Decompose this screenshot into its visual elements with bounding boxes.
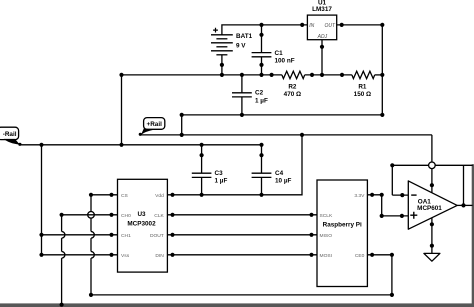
node CE0 corner — [390, 253, 394, 257]
svg-text:MISO: MISO — [320, 233, 333, 239]
node V- pin join — [430, 222, 434, 226]
wire CS — [91, 195, 392, 295]
wire -rail y145 — [21, 144, 262, 146]
wire hop CS over CH1 — [91, 232, 94, 239]
wire DOUT to MISO — [173, 234, 312, 236]
node corner battery minus — [119, 73, 123, 77]
capacitor C3 — [192, 145, 228, 195]
wire feedback — [392, 165, 473, 195]
svg-text:C4: C4 — [275, 170, 284, 177]
wire hop CS over CH0 — [91, 212, 94, 219]
wire V- to ground — [431, 218, 433, 254]
wire CLK to SCLK — [173, 214, 312, 216]
svg-text:ADJ: ADJ — [317, 34, 328, 40]
wire hop CH0 over CH1 — [62, 232, 65, 239]
svg-text:Vdd: Vdd — [155, 193, 164, 199]
capacitor C2 — [232, 73, 268, 115]
node +input join — [400, 214, 404, 218]
node CH1 junction — [39, 233, 43, 237]
svg-text:U3: U3 — [137, 211, 146, 218]
resistor R1 150 ohm — [352, 71, 375, 98]
node CS pin join — [109, 193, 113, 197]
svg-text:470 Ω: 470 Ω — [284, 91, 301, 98]
svg-text:1 µF: 1 µF — [215, 178, 228, 185]
node -rail A — [39, 143, 43, 147]
node C2 bottom junction — [240, 113, 244, 117]
wire battery minus drop — [121, 75, 123, 145]
node C4 top junction — [259, 143, 263, 147]
node V+ pin join — [430, 183, 434, 187]
node CH0 bottom junction — [60, 303, 64, 307]
wire hop feedback over V+ — [429, 162, 436, 169]
svg-text:150 Ω: 150 Ω — [354, 91, 371, 98]
wire LM317 ADJ — [321, 40, 323, 75]
frame border right — [472, 164, 474, 307]
node CE0 pin join — [370, 253, 374, 257]
svg-text:C2: C2 — [255, 90, 264, 97]
svg-text:CE0: CE0 — [355, 253, 365, 259]
wire +rail link vertical — [181, 115, 183, 135]
wire CH0 drop — [61, 215, 63, 305]
svg-text:100 nF: 100 nF — [275, 58, 295, 65]
svg-text:3.3V: 3.3V — [354, 193, 365, 199]
svg-text:MOSI: MOSI — [320, 253, 333, 259]
node Vdd pin join — [170, 193, 174, 197]
svg-text:LM317: LM317 — [312, 6, 332, 13]
node +rail junction — [180, 133, 184, 137]
node feedback corner — [390, 163, 394, 167]
wire DIN to MOSI — [173, 254, 312, 256]
svg-text:SCLK: SCLK — [320, 213, 334, 219]
svg-text:CS: CS — [121, 193, 129, 199]
svg-text:BAT1: BAT1 — [236, 33, 253, 40]
wire 3.3V to +input — [372, 195, 408, 216]
wire hop CS over Vss — [91, 252, 94, 259]
node C1 bottom junction — [259, 73, 263, 77]
wire battery top to LM317 IN — [222, 25, 308, 35]
svg-text:+Rail: +Rail — [147, 121, 163, 128]
wire CH0 — [62, 214, 112, 216]
node corner left — [180, 113, 184, 117]
svg-text:CLK: CLK — [154, 213, 164, 219]
node ADJ junction — [320, 73, 324, 77]
node OUT pin join — [340, 23, 344, 27]
node C3 top junction — [200, 143, 204, 147]
label +Rail — [139, 118, 165, 136]
svg-text:DOUT: DOUT — [150, 233, 164, 239]
svg-text:1 µF: 1 µF — [255, 97, 268, 104]
battery BAT1 — [211, 28, 253, 55]
svg-text:CH0: CH0 — [121, 213, 131, 219]
regulator U1 LM317 — [307, 0, 336, 40]
svg-text:C3: C3 — [215, 170, 224, 177]
node output junction — [461, 203, 465, 207]
node join left of R2 — [270, 73, 274, 77]
wire V+ supply — [431, 135, 433, 193]
wire CE0 — [372, 255, 392, 295]
wire Vdd net — [173, 135, 303, 195]
svg-text:Vss: Vss — [121, 253, 130, 259]
node R1 right junction — [380, 73, 384, 77]
capacitor C4 — [252, 145, 292, 195]
resistor R2 470 ohm — [282, 71, 305, 98]
node Vdd riser junction — [300, 133, 304, 137]
node CS bus corner — [89, 293, 93, 297]
capacitor C1 — [252, 25, 295, 75]
ground — [424, 253, 440, 261]
wire -input — [392, 194, 408, 196]
svg-text:9 V: 9 V — [236, 42, 246, 49]
node CE0 bus corner — [390, 293, 394, 297]
svg-text:C1: C1 — [275, 50, 284, 57]
svg-text:Raspberry Pi: Raspberry Pi — [323, 222, 362, 229]
IC Raspberry Pi — [312, 180, 373, 287]
node battery bottom junction — [220, 73, 224, 77]
node 3.3V pin join — [370, 193, 374, 197]
wire Vss — [42, 254, 112, 256]
svg-text:MCP3002: MCP3002 — [127, 220, 156, 227]
node ground join — [430, 244, 434, 248]
node CH0 pin join — [109, 213, 113, 217]
frame border bottom — [0, 303, 474, 307]
node C3 bottom junction — [200, 193, 204, 197]
node CH1 pin join — [109, 233, 113, 237]
label -Rail — [0, 127, 22, 146]
wire CH1 — [42, 234, 112, 236]
node Vss pin join — [109, 253, 113, 257]
node 3.3V corner — [380, 193, 384, 197]
node -rail battery branch — [119, 143, 123, 147]
svg-text:R1: R1 — [358, 84, 367, 91]
node IN pin join — [300, 23, 304, 27]
svg-text:IN: IN — [309, 23, 314, 29]
node C1 top junction — [259, 23, 263, 27]
node join left of R1 — [340, 73, 344, 77]
node CS corner — [89, 193, 93, 197]
op-amp OA1 MCP601 — [408, 181, 457, 229]
IC U3 MCP3002 — [112, 179, 173, 272]
wire LM317 OUT — [337, 25, 383, 75]
wire battery bottom — [221, 55, 223, 75]
svg-text:CH1: CH1 — [121, 233, 131, 239]
node CH0 corner — [60, 213, 64, 217]
node +input corner — [380, 214, 384, 218]
node C4 bottom junction — [259, 193, 263, 197]
node Vss end — [39, 253, 43, 257]
wire hop CH0 over Vss — [62, 252, 65, 259]
node OUT corner — [380, 23, 384, 27]
svg-text:10 µF: 10 µF — [275, 178, 291, 185]
svg-text:OUT: OUT — [324, 23, 336, 29]
node corner right — [380, 113, 384, 117]
node -input join — [400, 193, 404, 197]
wire op-amp output — [457, 204, 472, 206]
svg-text:-Rail: -Rail — [3, 131, 17, 138]
wire +rail y135 — [140, 134, 432, 136]
svg-text:DIN: DIN — [155, 253, 164, 259]
wire -rail left drop — [41, 145, 43, 255]
node ADJ join — [320, 45, 324, 49]
wire +rail upper y115 — [182, 75, 383, 115]
svg-text:MCP601: MCP601 — [417, 205, 442, 212]
node battery join — [220, 63, 224, 67]
svg-text:R2: R2 — [288, 84, 297, 91]
node join right of R2 — [310, 73, 314, 77]
wire mid rail y75 — [122, 74, 282, 76]
